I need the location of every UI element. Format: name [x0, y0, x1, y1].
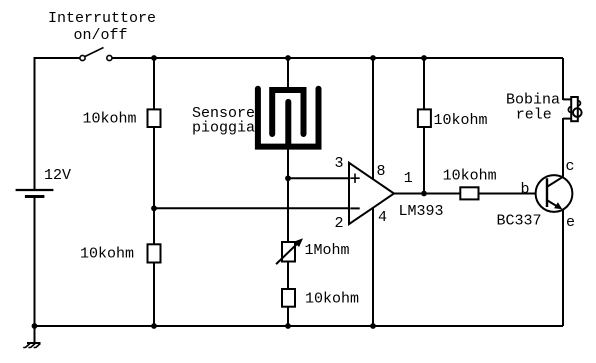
node inverting ref: [151, 205, 157, 211]
wire sensor column top: [287, 58, 289, 88]
node sensor bottom: [285, 323, 291, 329]
node divider top: [151, 55, 157, 61]
svg-text:Interruttore: Interruttore: [48, 10, 156, 27]
node power bottom: [370, 323, 376, 329]
wire left rail lower: [34, 198, 36, 327]
node sensor top: [285, 55, 291, 61]
wire sensor column middle: [287, 147, 289, 242]
switch S1 on/off: [80, 48, 112, 61]
resistor R5 10kohm: [460, 187, 478, 199]
node pullup top: [421, 55, 427, 61]
svg-text:8: 8: [377, 163, 386, 180]
node sensor tap: [285, 175, 291, 181]
resistor R2 10kohm: [148, 244, 161, 262]
wire left rail upper: [34, 57, 36, 189]
svg-text:2: 2: [335, 215, 344, 232]
svg-text:b: b: [521, 181, 530, 198]
svg-text:on/off: on/off: [74, 27, 128, 44]
wire pullup column upper: [423, 58, 425, 109]
node output: [421, 191, 427, 197]
svg-text:10kohm: 10kohm: [83, 110, 137, 127]
wire inverting input: [154, 207, 349, 209]
ground: [23, 343, 40, 348]
svg-text:4: 4: [378, 209, 387, 226]
resistor R1 10kohm: [148, 109, 161, 127]
wire pullup column lower: [423, 127, 425, 194]
node ground left: [32, 323, 38, 329]
wire ground stub: [34, 326, 36, 343]
svg-text:1: 1: [404, 170, 413, 187]
wire collector: [562, 118, 564, 177]
potentiometer P1 1Mohm: [276, 238, 303, 264]
wire divider column lower: [153, 263, 155, 327]
svg-text:3: 3: [335, 155, 344, 172]
svg-text:rele: rele: [516, 107, 552, 124]
wire emitter: [562, 209, 564, 326]
resistor R4 10kohm: [418, 109, 431, 127]
rain sensor electrode bottom: [258, 89, 319, 147]
wire divider column upper: [153, 58, 155, 109]
wire power rail: [372, 58, 374, 326]
node power top: [370, 55, 376, 61]
svg-text:12V: 12V: [44, 167, 71, 184]
svg-text:c: c: [566, 158, 575, 175]
wire divider column middle: [153, 127, 155, 244]
svg-text:e: e: [566, 214, 575, 231]
svg-text:pioggia: pioggia: [192, 120, 255, 137]
wire op-amp output: [394, 193, 460, 195]
node divider bottom: [151, 323, 157, 329]
wire sensor column bottom: [287, 307, 289, 326]
wire sensor column lower: [287, 262, 289, 290]
wire top rail: [112, 57, 563, 59]
rain sensor electrode top: [272, 90, 303, 134]
svg-text:10kohm: 10kohm: [443, 168, 497, 185]
svg-text:10kohm: 10kohm: [80, 246, 134, 263]
relay coil L1: [563, 97, 582, 121]
svg-text:1Mohm: 1Mohm: [305, 242, 350, 259]
battery B1 12V: [16, 190, 54, 197]
svg-text:BC337: BC337: [497, 213, 542, 230]
svg-text:10kohm: 10kohm: [434, 112, 488, 129]
op-amp U1 LM393: [349, 163, 394, 224]
svg-text:LM393: LM393: [399, 203, 444, 220]
svg-text:10kohm: 10kohm: [305, 290, 359, 307]
wire top-left horizontal: [35, 57, 81, 59]
wire bottom rail: [35, 325, 564, 327]
wire non-inverting input: [288, 177, 349, 179]
transistor Q1 BC337: [536, 175, 573, 212]
wire base: [479, 193, 536, 195]
resistor R3 10kohm: [282, 289, 295, 307]
wire right rail upper: [562, 58, 564, 100]
